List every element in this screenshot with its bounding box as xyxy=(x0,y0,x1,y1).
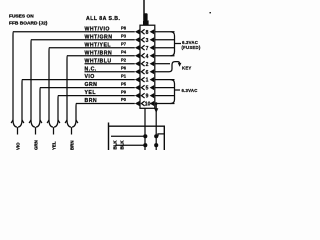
svg-text:VIO: VIO xyxy=(85,74,95,80)
twisted-pair merge 2 xyxy=(29,120,42,150)
wire stub 2 in plug xyxy=(115,144,145,146)
pin contacts xyxy=(143,134,147,138)
node BRN row xyxy=(76,97,175,107)
svg-text:(FUSED): (FUSED) xyxy=(182,45,201,50)
node YEL row xyxy=(58,89,175,99)
svg-text:VIO: VIO xyxy=(15,142,20,150)
node WHT/BRN row xyxy=(67,49,175,59)
svg-text:P6: P6 xyxy=(121,65,127,70)
wire elbow down at x=67 xyxy=(66,56,68,120)
node WHT/VIO row xyxy=(13,26,175,36)
svg-text:WHT/GRN: WHT/GRN xyxy=(85,34,113,40)
wire: top lead to fuse board xyxy=(143,0,145,20)
svg-text:FUSES ON: FUSES ON xyxy=(9,14,34,20)
svg-text:BRN: BRN xyxy=(69,140,74,150)
svg-text:WHT/VIO: WHT/VIO xyxy=(85,26,110,32)
svg-text:KEY: KEY xyxy=(182,65,192,70)
svg-text:GRN: GRN xyxy=(85,82,98,88)
wire elbow down at x=13 xyxy=(12,32,14,120)
svg-text:6: 6 xyxy=(146,70,149,76)
svg-text:ALL 8A S.B.: ALL 8A S.B. xyxy=(86,16,120,22)
connector J2 body outline xyxy=(140,25,155,108)
svg-text:2: 2 xyxy=(146,62,149,68)
svg-text:P3: P3 xyxy=(121,34,127,39)
node N.C. row xyxy=(85,62,182,76)
svg-text:P1: P1 xyxy=(121,73,127,78)
svg-text:YEL: YEL xyxy=(51,141,56,150)
svg-text:P9: P9 xyxy=(121,89,127,94)
svg-text:BLK: BLK xyxy=(119,140,124,150)
svg-text:P8: P8 xyxy=(121,26,127,31)
node WHT/BLU row xyxy=(85,57,171,67)
wire jog from enclosure edge to contact column xyxy=(158,134,164,136)
svg-text:WHT/YEL: WHT/YEL xyxy=(85,42,112,48)
node GRN row xyxy=(40,81,175,91)
svg-text:8: 8 xyxy=(146,30,149,36)
svg-text:YEL: YEL xyxy=(85,90,97,96)
svg-text:5: 5 xyxy=(146,86,149,92)
svg-text:1: 1 xyxy=(146,78,149,84)
svg-text:GRN: GRN xyxy=(33,140,38,150)
net 6.3VAC (FUSED) join bar xyxy=(171,32,175,56)
wire from connector bottom down through plug xyxy=(144,108,146,150)
svg-text:WHT/BRN: WHT/BRN xyxy=(85,50,113,56)
wire stub 1 in plug xyxy=(111,135,145,137)
svg-text:BLK: BLK xyxy=(112,140,117,150)
connector P4 enclosure xyxy=(109,123,165,151)
svg-text:N.C.: N.C. xyxy=(85,66,97,72)
wire elbow down at x=76 xyxy=(75,104,77,121)
svg-text:P7: P7 xyxy=(121,41,127,46)
node VIO row xyxy=(22,73,175,83)
wire elbow down at x=22 xyxy=(21,80,23,120)
node WHT/YEL row xyxy=(49,41,175,51)
wire branch down to plug, with arrowhead xyxy=(155,104,157,151)
svg-text:P2: P2 xyxy=(121,57,127,62)
svg-text:10: 10 xyxy=(145,102,151,108)
twisted-pair merge 4 xyxy=(65,120,78,150)
svg-text:P0: P0 xyxy=(121,97,127,102)
svg-text:BRN: BRN xyxy=(85,98,98,104)
svg-text:4: 4 xyxy=(146,54,149,60)
fuse block tab on connector top xyxy=(143,20,149,25)
wire elbow down at x=40 xyxy=(39,88,41,120)
svg-text:WHT/BLU: WHT/BLU xyxy=(85,58,112,64)
node WHT/GRN row xyxy=(31,34,175,44)
wire elbow down at x=31 xyxy=(30,40,32,120)
net 6.3VAC join bar xyxy=(171,80,175,104)
junction on BRN row xyxy=(155,102,158,105)
svg-text:7: 7 xyxy=(146,46,149,52)
stray speck xyxy=(210,12,211,13)
twisted-pair merge 3 xyxy=(47,120,60,150)
twisted-pair merge 1 xyxy=(11,120,24,150)
svg-text:3: 3 xyxy=(146,38,149,44)
svg-text:9: 9 xyxy=(146,94,149,100)
fuse F1 body blob on top lead xyxy=(143,13,147,21)
wire elbow down at x=58 xyxy=(57,96,59,120)
svg-text:FFB BOARD (J2): FFB BOARD (J2) xyxy=(9,21,48,27)
svg-text:6.3VAC: 6.3VAC xyxy=(182,88,198,93)
svg-text:P4: P4 xyxy=(121,49,127,54)
wire elbow down at x=49 xyxy=(48,48,50,120)
svg-text:P5: P5 xyxy=(121,81,127,86)
